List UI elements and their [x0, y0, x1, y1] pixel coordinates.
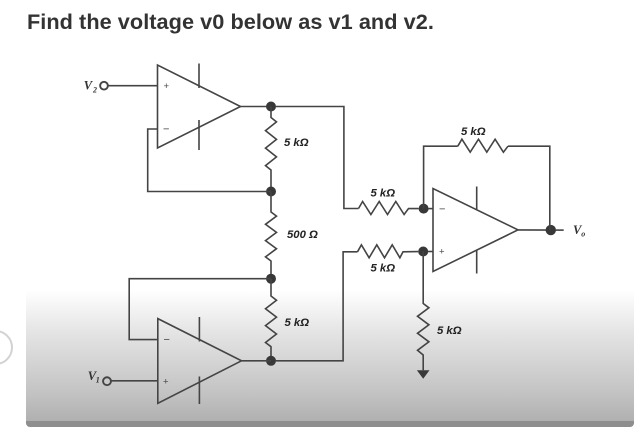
wire node4 to R5: [276, 252, 358, 361]
node 4: [266, 356, 276, 366]
node 5 (inverting input): [419, 204, 429, 214]
wire U1 output: [241, 106, 272, 108]
wire V2 to U1 + input: [108, 85, 157, 87]
resistor R5 5k horizontal: [358, 245, 419, 258]
left edge circle watermark: [0, 330, 13, 365]
wire node5 short to U3: [428, 208, 433, 210]
video gradient background: [26, 290, 634, 421]
svg-text:+: +: [439, 247, 445, 258]
op-amp U3 top power pin: [476, 187, 478, 211]
feedback wire U1: [148, 129, 271, 192]
svg-text:500 Ω: 500 Ω: [287, 229, 318, 241]
op-amp U2 triangle: [158, 319, 242, 404]
ground symbol: [417, 370, 430, 379]
wire node6 short to U3: [428, 251, 433, 253]
svg-text:5 kΩ: 5 kΩ: [371, 188, 396, 200]
node 1: [266, 102, 276, 112]
title text: [27, 9, 434, 35]
output stub wire: [556, 229, 564, 231]
terminal V2 circle: [100, 82, 108, 90]
svg-text:−: −: [439, 204, 445, 216]
resistor R2 500 vertical: [266, 192, 277, 279]
svg-text:5 kΩ: 5 kΩ: [285, 317, 310, 329]
svg-text:o: o: [581, 229, 585, 238]
resistor R3 5k vertical: [266, 279, 277, 361]
wire node1 to R4: [276, 107, 359, 209]
terminal V1 circle: [103, 377, 111, 385]
feedback wire U2: [129, 279, 271, 340]
svg-text:−: −: [163, 124, 169, 136]
op-amp U2 top power pin: [198, 317, 200, 342]
feedback wire U3 right segment: [508, 146, 550, 230]
svg-text:1: 1: [96, 376, 100, 385]
node 2: [266, 187, 276, 197]
svg-text:+: +: [163, 377, 169, 388]
svg-text:−: −: [164, 334, 170, 346]
resistor R4 5k horizontal: [359, 202, 419, 215]
op-amp U1 bottom power pin: [198, 120, 200, 150]
svg-text:2: 2: [92, 86, 97, 95]
resistor R6 5k feedback horizontal: [458, 139, 508, 152]
svg-text:+: +: [164, 81, 170, 92]
op-amp U1 triangle: [158, 65, 241, 148]
svg-text:5 kΩ: 5 kΩ: [437, 325, 462, 337]
wire V1 to U2 + input: [111, 380, 158, 382]
op-amp U3 triangle: [433, 189, 518, 272]
node 7 (output): [546, 225, 556, 235]
op-amp U2 bottom power pin: [198, 377, 200, 405]
wire U3 output: [518, 229, 551, 231]
svg-text:5 kΩ: 5 kΩ: [284, 137, 309, 149]
node 3: [266, 274, 276, 284]
op-amp U3 bottom power pin: [476, 250, 478, 274]
feedback wire U3 left segment: [424, 146, 458, 208]
svg-text:5 kΩ: 5 kΩ: [371, 263, 396, 275]
resistor R1 5k vertical: [266, 107, 277, 192]
op-amp U1 top power pin: [198, 64, 200, 89]
resistor R7 5k to ground: [418, 252, 429, 371]
svg-text:5 kΩ: 5 kΩ: [461, 126, 486, 138]
node 6 (non-inverting input): [418, 247, 428, 257]
wire U2 output: [242, 360, 272, 362]
video bottom bar: [26, 421, 634, 427]
